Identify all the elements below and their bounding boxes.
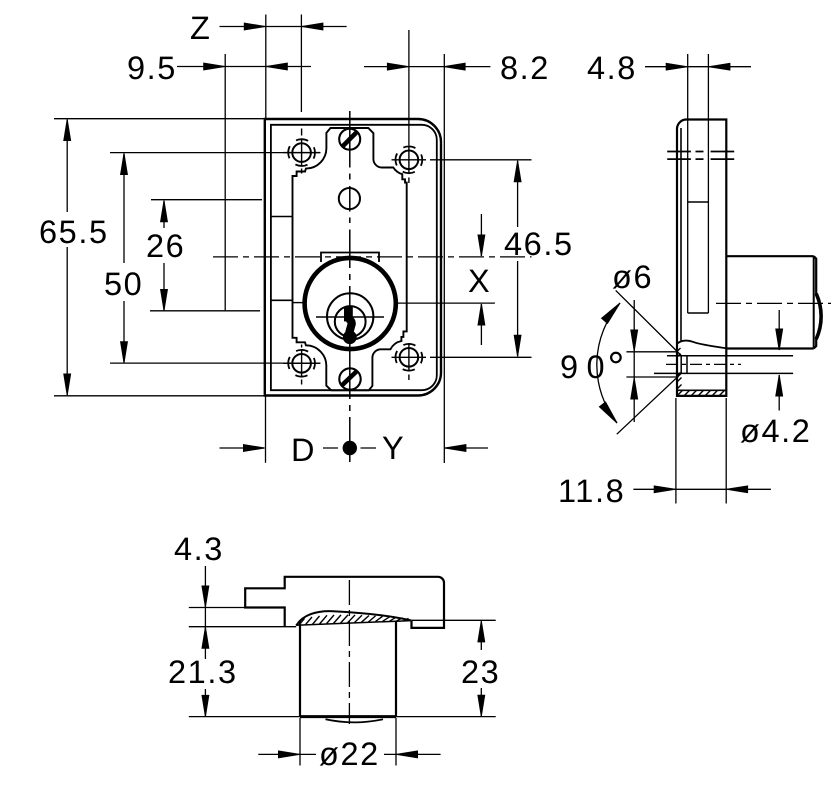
svg-text:°: ° <box>608 343 626 390</box>
hole lines <box>667 355 793 357</box>
svg-text:ø22: ø22 <box>319 736 380 772</box>
screw TL: dashed relief circle <box>288 139 315 166</box>
dim ø22 <box>258 753 440 755</box>
11.8 dim <box>633 488 771 490</box>
cylinder cap arc <box>326 719 384 722</box>
bottom view labels <box>168 531 500 772</box>
cylinder axis centerline <box>716 302 831 304</box>
dim 8.2 <box>364 66 490 68</box>
svg-text:ø6: ø6 <box>612 259 653 295</box>
dim 50 <box>123 154 125 363</box>
bottom common extension line <box>189 716 496 718</box>
dim 4.3 / 21.3 extension lines <box>189 608 296 627</box>
cylinder crosshair left segment <box>293 302 306 304</box>
side plate inner left line <box>680 128 682 342</box>
svg-text:0: 0 <box>587 349 607 385</box>
bottom view axis centerline <box>348 580 350 724</box>
screw TL: circle <box>292 143 311 162</box>
svg-text:9: 9 <box>560 349 580 385</box>
svg-text:D: D <box>291 432 316 468</box>
front view labels <box>39 10 574 468</box>
countersink opening extension lines <box>626 352 678 377</box>
svg-text:21.3: 21.3 <box>168 654 238 690</box>
hump base line <box>296 621 411 626</box>
plug crosshair horizontal <box>316 316 384 318</box>
ø6 dim arrows <box>633 300 635 422</box>
countersink cone flanks and 45 deg leaders <box>616 290 682 434</box>
screw TR: crosshair <box>392 159 427 161</box>
slot top and bottom edges <box>688 202 709 313</box>
screw BL: crosshair <box>283 362 320 364</box>
svg-text:46.5: 46.5 <box>504 226 574 262</box>
horizontal centerline <box>213 256 532 258</box>
screw hole lines upper pair <box>667 151 734 153</box>
dim 23 <box>480 622 482 716</box>
faceplate step line lower <box>271 299 293 301</box>
4.8 dim <box>645 66 751 68</box>
dim 9.5 <box>177 66 311 68</box>
screw TL: crosshair <box>283 152 320 154</box>
cylinder bottom bold <box>300 715 396 718</box>
hump hatching <box>299 615 409 625</box>
faceplate outline with corner reliefs <box>293 128 407 390</box>
hump dome outline <box>296 611 411 625</box>
cylinder sides <box>300 621 396 717</box>
svg-text:23: 23 <box>461 654 500 690</box>
svg-text:11.8: 11.8 <box>558 473 625 509</box>
svg-text:65.5: 65.5 <box>39 214 109 250</box>
vertical centerline <box>349 111 351 462</box>
dim 21.3 <box>204 689 206 716</box>
arrowheads front view <box>244 23 265 30</box>
svg-text:X: X <box>468 263 491 299</box>
screw BR: circle <box>400 348 419 367</box>
slot lines (4.8 extensions through plate) <box>688 54 709 313</box>
slotted screw top <box>339 129 360 150</box>
key plug outer circle <box>327 293 373 339</box>
svg-text:Z: Z <box>190 10 211 46</box>
screw TR: dashed relief circle <box>396 146 423 173</box>
hole centerline <box>666 363 741 365</box>
dim X <box>480 214 482 345</box>
svg-text:9.5: 9.5 <box>127 50 177 86</box>
hatching bottom band <box>677 348 725 396</box>
dim 65.5 <box>66 120 68 396</box>
90 deg arc <box>597 303 620 423</box>
lock body outer outline <box>265 119 441 396</box>
svg-text:4.8: 4.8 <box>587 50 637 86</box>
bottom view body outline <box>245 577 444 628</box>
key plug inner circle <box>335 306 366 337</box>
dim D Y <box>220 447 489 449</box>
ø4.2 dim arrows <box>778 310 780 411</box>
faceplate step line upper <box>271 216 293 218</box>
svg-text:4.3: 4.3 <box>174 531 224 567</box>
screw BR: crosshair <box>392 356 427 358</box>
cylinder flange rectangle <box>321 253 379 263</box>
cylinder side rectangle <box>726 256 813 348</box>
dim 4.3 arrows <box>204 566 206 659</box>
screw BL: dashed relief circle <box>288 350 315 377</box>
lock body inner outline <box>271 125 437 390</box>
screw TR: circle <box>400 151 419 170</box>
screw BR: dashed relief circle <box>396 344 423 371</box>
hatch band borders <box>677 389 726 391</box>
small hole circle <box>339 188 360 209</box>
svg-text:26: 26 <box>146 228 185 264</box>
side view labels <box>558 50 811 509</box>
slotted screw bottom <box>339 368 360 389</box>
svg-text:ø4.2: ø4.2 <box>740 413 811 449</box>
cylinder cap outline <box>814 256 821 348</box>
side view arrowheads <box>666 63 687 70</box>
dot between D and Y <box>343 441 357 455</box>
bottom view arrowheads <box>202 586 209 607</box>
cylinder outer circle <box>305 258 396 349</box>
dim 46.5 <box>517 161 519 356</box>
dim Z <box>220 26 347 28</box>
screw BL: circle <box>292 354 311 373</box>
svg-text:8.2: 8.2 <box>500 50 550 86</box>
keyhole (black) <box>343 307 357 345</box>
wavy break line <box>677 340 726 348</box>
svg-text:Y: Y <box>382 430 405 466</box>
dim 26 <box>163 201 165 310</box>
svg-text:50: 50 <box>104 266 143 302</box>
side plate outline <box>677 120 726 396</box>
